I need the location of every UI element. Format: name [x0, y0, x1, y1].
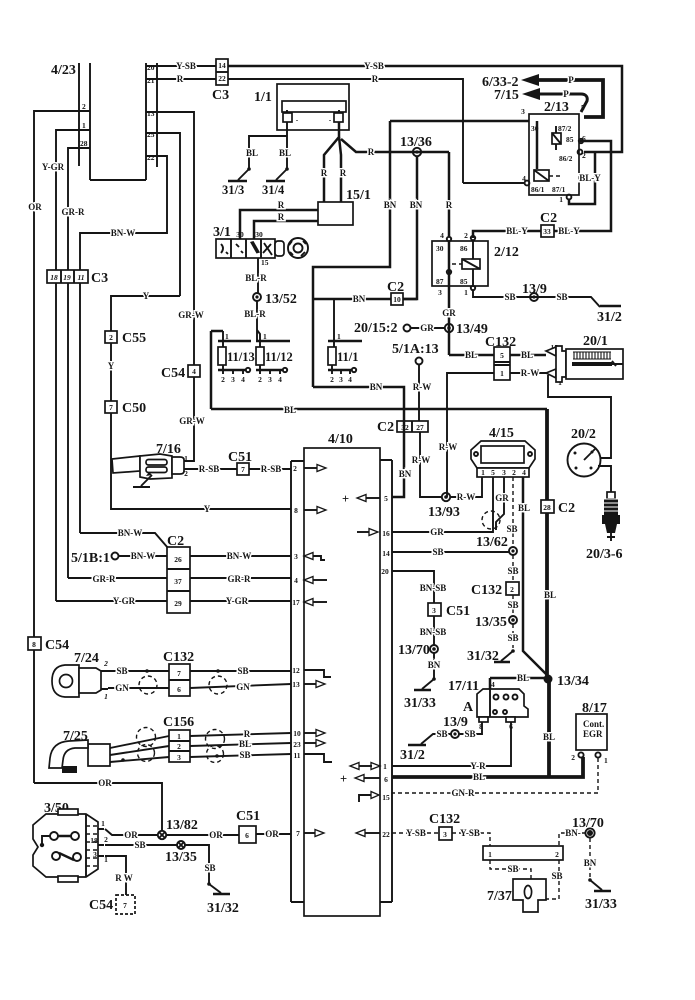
wire to 2/13 pin4 [463, 182, 524, 184]
svg-text:10: 10 [393, 295, 401, 304]
svg-text:OR: OR [209, 830, 223, 840]
svg-text:R: R [244, 729, 251, 739]
svg-text:R-W: R-W [412, 455, 431, 465]
wire R lower to 3/1 [254, 221, 318, 239]
svg-text:4: 4 [440, 231, 444, 240]
svg-text:C55: C55 [122, 331, 146, 346]
arrow pin23 [304, 742, 316, 744]
wire 20/1 to 20/2 [548, 375, 611, 458]
wire R-W C2:27 to 13/93 [420, 432, 442, 497]
svg-text:2: 2 [82, 102, 86, 111]
wire injector rail BL [211, 331, 223, 409]
svg-text:SB: SB [432, 547, 443, 557]
wire SB 2/12 pin1 to 13/9 [473, 290, 600, 307]
connector C2 (26/37/29) [167, 534, 190, 613]
svg-text:4: 4 [522, 468, 526, 477]
svg-text:28: 28 [80, 139, 88, 148]
svg-text:BL: BL [465, 350, 477, 360]
wire Y C55 to C50 [110, 343, 112, 401]
svg-text:2: 2 [103, 659, 108, 668]
svg-text:87: 87 [436, 277, 444, 286]
svg-text:BL-R: BL-R [245, 273, 267, 283]
svg-text:4: 4 [278, 375, 282, 384]
svg-text:SB: SB [507, 566, 518, 576]
svg-text:3: 3 [339, 375, 343, 384]
wire BL battery left terminal grounds [286, 122, 288, 169]
connector C132 (2) [471, 582, 519, 598]
ignition switch 3/1 [213, 225, 308, 258]
arrow pin16 [357, 531, 369, 533]
svg-text:7: 7 [123, 901, 127, 910]
arrow pin4 [304, 577, 313, 584]
svg-text:13/62: 13/62 [476, 535, 508, 550]
svg-text:1: 1 [488, 850, 492, 859]
wire BL to C132:5 [449, 354, 494, 357]
svg-text:13: 13 [147, 109, 155, 118]
svg-text:18: 18 [90, 836, 98, 845]
svg-text:13/49: 13/49 [456, 322, 488, 337]
wire SB to ground [512, 624, 514, 648]
svg-text:SB: SB [116, 666, 127, 676]
svg-text:BN: BN [428, 660, 441, 670]
connector C50 [105, 401, 146, 416]
label 5/1B:1 [71, 551, 119, 566]
node 13/35 [475, 615, 517, 630]
svg-text:4/23: 4/23 [51, 63, 76, 78]
wire OR below C54:8 [33, 650, 35, 783]
svg-text:2: 2 [555, 850, 559, 859]
ECU 4/10 [291, 432, 392, 916]
svg-text:BL-Y: BL-Y [506, 226, 528, 236]
svg-text:1: 1 [225, 332, 229, 341]
svg-text:31/2: 31/2 [597, 310, 622, 325]
wire pin22 BN-W [80, 156, 167, 270]
svg-text:C132: C132 [163, 650, 194, 665]
heavy BL vertical [545, 409, 549, 676]
svg-text:86/1: 86/1 [531, 185, 545, 194]
glyph pin12 [304, 670, 331, 677]
svg-text:4: 4 [192, 367, 196, 376]
svg-text:1: 1 [464, 288, 468, 297]
svg-text:R: R [278, 200, 285, 210]
label 5/1A:13 [392, 342, 439, 365]
svg-text:7: 7 [296, 829, 300, 838]
svg-text:22: 22 [218, 74, 226, 83]
svg-text:R-W: R-W [521, 368, 540, 378]
svg-text:BL-Y: BL-Y [558, 226, 580, 236]
svg-text:BL: BL [284, 405, 296, 415]
wire GN C132:6 to pin13 [190, 684, 291, 688]
arrow pin22 [365, 832, 380, 834]
node 13/70 lower [572, 816, 604, 838]
svg-text:26: 26 [174, 555, 182, 564]
svg-text:20/2: 20/2 [571, 427, 596, 442]
svg-text:R: R [177, 74, 184, 84]
svg-text:+: + [340, 772, 347, 786]
arrow pin1 double [359, 765, 372, 767]
svg-text:1: 1 [184, 454, 188, 463]
wire 17/11 pin4 up [489, 678, 492, 689]
wire BL C132 to 20/1 pin15 [510, 354, 546, 357]
shield circle right [209, 676, 227, 694]
svg-text:OR: OR [265, 829, 279, 839]
wire SB 13/9 to 17/11 pin8 [459, 722, 482, 734]
svg-text:3: 3 [268, 375, 272, 384]
wire R-W C132:1 to 20/1 pin1 [510, 372, 546, 374]
wire Y-SB 4/10 pin22 to C132:3 [392, 832, 439, 834]
svg-text:R W: R W [115, 873, 133, 883]
wire GR-R C2:37 to pin4 [190, 577, 291, 579]
shield circle [482, 511, 500, 529]
svg-text:SB: SB [237, 666, 248, 676]
svg-text:6: 6 [177, 685, 181, 694]
svg-text:OR: OR [124, 830, 138, 840]
svg-text:2: 2 [221, 375, 225, 384]
svg-text:1: 1 [263, 332, 267, 341]
svg-text:3/1: 3/1 [213, 225, 231, 240]
svg-text:2: 2 [464, 231, 468, 240]
svg-text:1: 1 [604, 756, 608, 765]
wire R C156:1 to pin10 [190, 733, 291, 736]
svg-text:SB: SB [556, 292, 567, 302]
wire BN lower to 4/10 pin5 [313, 387, 404, 497]
wire BN from node down to C2:10 [403, 156, 417, 299]
wire Y-GR to C2:29 [56, 600, 167, 602]
wire R upper to 3/1 [240, 210, 318, 239]
connector C2 (32/27) [377, 420, 428, 435]
wire BN from junction to C2:10 [313, 298, 391, 301]
svg-text:6: 6 [245, 831, 249, 840]
svg-text:C50: C50 [122, 401, 146, 416]
svg-text:C2: C2 [387, 280, 404, 295]
svg-text:Y-SB: Y-SB [364, 61, 384, 71]
node 13/35 lower [165, 841, 197, 865]
svg-text:BN: BN [584, 858, 597, 868]
wire BL rail to heavy vertical [211, 408, 547, 411]
svg-text:C51: C51 [236, 809, 260, 824]
svg-text:33: 33 [543, 227, 551, 236]
svg-text:C2: C2 [540, 211, 557, 226]
svg-text:GR-R: GR-R [62, 207, 85, 217]
wires 7/25 to C156 [110, 736, 169, 748]
wire BN-SB 4/10 pin20 to C51:3 [392, 571, 434, 603]
svg-text:GR-W: GR-W [179, 416, 205, 426]
svg-text:15/1: 15/1 [346, 188, 371, 203]
svg-text:15: 15 [382, 793, 390, 802]
svg-text:GR-W: GR-W [178, 310, 204, 320]
svg-text:13/9: 13/9 [443, 715, 468, 730]
wire BN C2:10 right to node column [403, 298, 417, 301]
wire R battery right terminal fork [324, 122, 339, 202]
wire GR 4/15 pin5 to 4/10 pin16 [392, 477, 493, 532]
svg-text:25: 25 [147, 130, 155, 139]
svg-text:22: 22 [147, 153, 155, 162]
wire SB to 13/35 [512, 595, 514, 616]
svg-text:1: 1 [101, 819, 105, 828]
battery 1/1 [254, 84, 349, 130]
svg-text:13/36: 13/36 [400, 135, 432, 150]
wire heavy BL below node [547, 681, 551, 776]
connector C54 (8) [28, 637, 69, 653]
arrow pin17 [304, 599, 313, 606]
svg-text:7: 7 [241, 465, 245, 474]
svg-text:1/1: 1/1 [254, 90, 272, 105]
pump 7/37 [487, 879, 546, 912]
svg-text:20/1: 20/1 [583, 334, 608, 349]
svg-text:7/15: 7/15 [494, 88, 519, 103]
wire GR to 13/49 [404, 325, 411, 332]
svg-text:1: 1 [177, 732, 181, 741]
svg-text:BL-Y: BL-Y [579, 173, 601, 183]
injector 11/13 [218, 331, 255, 384]
wire GR-R below C3 [67, 283, 69, 578]
relay 2/12 [432, 231, 519, 297]
wire GR-W to 7/16 [183, 377, 194, 461]
svg-text:BL: BL [521, 350, 533, 360]
wire 2/13 pin1 loop [569, 152, 595, 204]
svg-text:2: 2 [571, 753, 575, 762]
shield circles 7/25 right [206, 730, 225, 749]
svg-text:14: 14 [218, 61, 226, 70]
svg-text:85: 85 [460, 277, 468, 286]
svg-text:2: 2 [258, 375, 262, 384]
svg-text:2: 2 [177, 742, 181, 751]
svg-text:31/3: 31/3 [222, 183, 244, 197]
svg-text:13/52: 13/52 [265, 292, 297, 307]
svg-text:C3: C3 [212, 88, 229, 103]
svg-text:SB: SB [204, 863, 215, 873]
svg-text:7: 7 [177, 669, 181, 678]
svg-text:SB: SB [507, 633, 518, 643]
svg-text:21: 21 [147, 76, 155, 85]
wire BL 17/11 pin4 to 13/34 [490, 677, 544, 680]
wire GR 2/12 pin3 to 13/49 [448, 286, 451, 355]
svg-text:4: 4 [241, 375, 245, 384]
svg-text:BL: BL [518, 503, 530, 513]
svg-text:3: 3 [521, 107, 525, 116]
svg-text:SB: SB [507, 600, 518, 610]
svg-text:R-SB: R-SB [261, 464, 282, 474]
svg-text:GN: GN [115, 683, 129, 693]
svg-text:P: P [563, 89, 569, 99]
svg-text:31/33: 31/33 [585, 897, 617, 912]
svg-text:2: 2 [510, 585, 514, 594]
svg-text:20/15:2: 20/15:2 [354, 321, 398, 336]
wire Y horizontal to C55 [111, 296, 180, 331]
wire BN 13/70 to strip pin2 [559, 833, 586, 846]
svg-text:BN-SB: BN-SB [420, 627, 447, 637]
svg-text:C54: C54 [89, 898, 113, 913]
wire BL-Y from 2/12 pin2 [473, 231, 541, 238]
wire GR 4/15 pin3 [496, 477, 504, 530]
svg-text:22: 22 [382, 830, 390, 839]
node 13/34 [544, 674, 589, 689]
wire heavy BL to pin6 and 8/17 [392, 757, 583, 777]
connector C3 (14/22) [212, 59, 229, 103]
svg-text:BN-W: BN-W [118, 528, 143, 538]
svg-text:2: 2 [184, 469, 188, 478]
svg-text:27: 27 [416, 423, 424, 432]
connector strip 7/37 top [483, 846, 563, 860]
wire SB C132:7 to pin12 [190, 670, 291, 672]
svg-text:15: 15 [261, 258, 269, 267]
svg-text:Y-GR: Y-GR [42, 162, 65, 172]
svg-text:R: R [372, 74, 379, 84]
svg-text:20: 20 [147, 63, 155, 72]
wire to 2/13 pin3 [390, 120, 529, 123]
wire OR to 13/82 [34, 783, 162, 831]
svg-text:P: P [568, 75, 574, 85]
wire R-W 5/1A to C2:27 [418, 365, 420, 421]
svg-text:1: 1 [481, 468, 485, 477]
svg-text:17: 17 [292, 598, 300, 607]
wire BN-W below C3 [79, 283, 81, 533]
wire SB C156:3 to pin11 [190, 754, 291, 757]
svg-text:1: 1 [82, 121, 86, 130]
wire OR 3/50 to 13/82 [105, 829, 158, 835]
wire Y-SB from C3 to right [228, 66, 622, 152]
svg-text:R-W: R-W [457, 492, 476, 502]
ignition module 4/15 [471, 426, 535, 477]
svg-text:SB: SB [464, 729, 475, 739]
node 13/93 [428, 493, 460, 520]
wire SB 13/9 to ground [421, 734, 451, 744]
svg-text:10: 10 [293, 729, 301, 738]
svg-text:BN-W: BN-W [227, 551, 252, 561]
connector C3 (18/19/11) [47, 270, 108, 286]
svg-text:EGR: EGR [583, 729, 603, 739]
wire BN vertical from relay feed [313, 121, 390, 387]
svg-text:8: 8 [294, 506, 298, 515]
svg-text:2: 2 [330, 375, 334, 384]
svg-text:R-SB: R-SB [199, 464, 220, 474]
wire BN to ground [433, 653, 435, 679]
svg-text:3: 3 [93, 850, 97, 859]
svg-text:85: 85 [566, 135, 574, 144]
ground 31/32 mid [467, 649, 515, 664]
svg-text:2: 2 [109, 333, 113, 342]
svg-text:SB: SB [239, 750, 250, 760]
connector C2 (33) [540, 211, 557, 237]
connector C132 (7/6) [163, 650, 194, 696]
wire BN 13/70 to ground [589, 838, 591, 878]
wire OR C51:6 to 4/10 pin7 [256, 833, 291, 835]
svg-text:14: 14 [382, 549, 390, 558]
svg-text:2/13: 2/13 [544, 100, 569, 115]
ignition lock 3/50 [33, 801, 108, 882]
svg-text:3: 3 [502, 468, 506, 477]
connector C51 (7) [228, 450, 252, 475]
svg-text:20/3-6: 20/3-6 [586, 547, 623, 562]
connector C55 [105, 331, 146, 346]
relay 2/13 [521, 100, 586, 204]
svg-text:BL: BL [246, 148, 258, 158]
svg-text:R: R [368, 147, 375, 157]
svg-text:12: 12 [292, 666, 300, 675]
svg-text:BN-: BN- [565, 828, 581, 838]
svg-text:16: 16 [382, 529, 390, 538]
svg-text:86/2: 86/2 [559, 154, 573, 163]
svg-text:C54: C54 [45, 638, 69, 653]
svg-text:Cont.: Cont. [583, 719, 604, 729]
svg-text:BN: BN [384, 200, 397, 210]
node 13/9 lower [443, 715, 468, 738]
svg-text:3: 3 [438, 288, 442, 297]
svg-text:C2: C2 [558, 501, 575, 516]
svg-text:13/70: 13/70 [398, 643, 430, 658]
wire Y-R 4/10 pin1 to 17/11 pin6 [392, 722, 511, 766]
svg-text:Y-SB: Y-SB [460, 828, 480, 838]
svg-text:7/37: 7/37 [487, 889, 512, 904]
svg-text:31/32: 31/32 [467, 649, 499, 664]
wire SB strip pin1 to 7/37 [490, 860, 531, 879]
svg-text:1: 1 [337, 332, 341, 341]
svg-text:5: 5 [500, 351, 504, 360]
EGR controller 8/17 [571, 701, 608, 765]
svg-text:31/4: 31/4 [262, 183, 285, 197]
svg-text:C132: C132 [471, 583, 502, 598]
svg-text:13/35: 13/35 [165, 850, 197, 865]
svg-text:13: 13 [292, 680, 300, 689]
ground 31/32 lower [207, 882, 239, 916]
svg-text:5: 5 [491, 468, 495, 477]
knock sensor 7/24 [52, 651, 108, 701]
svg-text:Y-SB: Y-SB [406, 828, 426, 838]
svg-text:30: 30 [236, 230, 244, 239]
svg-text:8: 8 [32, 640, 36, 649]
svg-text:GR: GR [430, 527, 444, 537]
svg-text:31/2: 31/2 [400, 748, 425, 763]
wire BN-W upper branch [80, 533, 168, 548]
svg-text:BL: BL [239, 739, 251, 749]
svg-text:GR: GR [420, 323, 434, 333]
svg-text:BN: BN [370, 382, 383, 392]
svg-text:6: 6 [384, 775, 388, 784]
svg-text:1: 1 [383, 762, 387, 771]
svg-text:87/1: 87/1 [552, 185, 566, 194]
wire 2/13 pin6 to C2:33 BL-Y [554, 141, 611, 231]
wire R-W 3/50 to C54:7 [105, 856, 126, 895]
svg-text:BN: BN [399, 469, 412, 479]
svg-text:18: 18 [50, 273, 58, 282]
svg-text:C3: C3 [91, 271, 108, 286]
svg-text:BN-SB: BN-SB [420, 583, 447, 593]
wire BN-SB to 13/70 [433, 616, 435, 645]
wire pin13 GR-W down [157, 112, 194, 365]
unit 15/1 [318, 188, 371, 225]
wire GR-R to C2:37 [68, 577, 167, 579]
wire Y C50 to 4/10 pin8 [111, 413, 291, 509]
svg-text:BL: BL [279, 148, 291, 158]
spark plug 20/3-6 [586, 492, 623, 562]
svg-text:SB: SB [436, 729, 447, 739]
svg-text:SB: SB [134, 840, 145, 850]
wire BL 4/15 pin4 to 13/34 [523, 477, 548, 676]
svg-text:Y-SB: Y-SB [176, 61, 196, 71]
connector 4/23 [51, 63, 157, 180]
wire BL C156:2 to pin23 [190, 743, 291, 746]
svg-text:R-W: R-W [439, 442, 458, 452]
svg-text:OR: OR [28, 202, 42, 212]
svg-text:C51: C51 [446, 604, 470, 619]
svg-text:BN-W: BN-W [131, 551, 156, 561]
svg-text:4: 4 [491, 680, 495, 689]
compressor relay 17/11 [448, 679, 528, 731]
wire R-W C132:1 to 13/93 [447, 373, 494, 497]
svg-text:BN: BN [410, 200, 423, 210]
svg-text:17/11: 17/11 [448, 679, 479, 694]
arrow pin10 [304, 732, 316, 734]
